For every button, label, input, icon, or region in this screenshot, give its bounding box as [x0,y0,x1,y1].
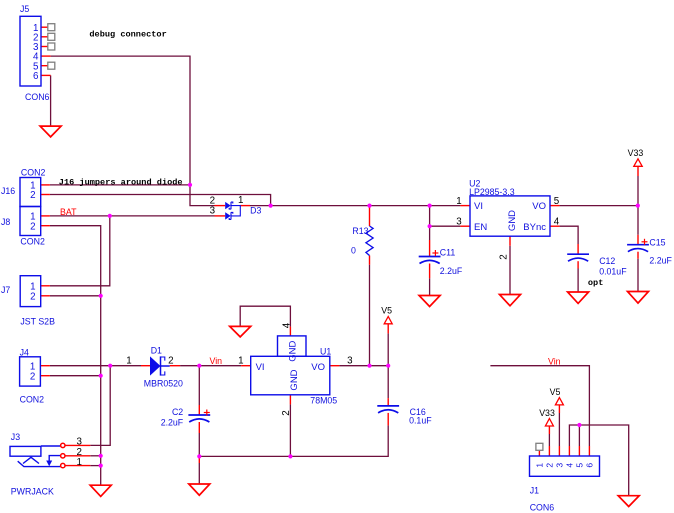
svg-text:J3: J3 [11,432,20,442]
svg-text:4: 4 [281,322,292,328]
svg-text:J5: J5 [20,4,29,14]
svg-text:V5: V5 [550,387,561,397]
svg-text:Vin: Vin [210,356,223,366]
svg-text:2.2uF: 2.2uF [649,256,672,266]
svg-text:C12: C12 [599,256,615,266]
svg-text:CON6: CON6 [530,502,555,512]
svg-text:CON6: CON6 [25,92,50,102]
svg-text:debug connector: debug connector [89,30,166,40]
svg-text:2.2uF: 2.2uF [440,266,463,276]
svg-text:BAT: BAT [60,207,77,217]
svg-text:R13: R13 [352,226,368,236]
svg-text:C15: C15 [649,237,665,247]
svg-text:3: 3 [210,206,216,217]
svg-text:VI: VI [474,201,483,212]
svg-text:CON2: CON2 [21,168,46,178]
svg-text:6: 6 [33,71,39,82]
svg-text:J1: J1 [530,486,539,496]
svg-text:2: 2 [30,291,35,302]
svg-text:2: 2 [545,463,555,468]
svg-text:J4: J4 [20,348,29,358]
svg-text:BYnc: BYnc [523,222,546,233]
svg-text:2: 2 [30,221,35,232]
svg-text:2: 2 [281,410,292,415]
svg-text:3: 3 [76,437,82,448]
svg-text:C11: C11 [440,248,456,258]
svg-text:2.2uF: 2.2uF [161,418,184,428]
svg-text:1: 1 [456,196,461,207]
svg-text:V33: V33 [628,148,644,158]
svg-text:5: 5 [554,196,560,207]
svg-text:EN: EN [474,222,487,233]
svg-text:GND: GND [507,210,518,231]
svg-text:VO: VO [311,362,325,373]
svg-text:0.01uF: 0.01uF [599,267,627,277]
svg-text:78M05: 78M05 [310,396,337,406]
svg-text:6: 6 [585,463,595,468]
svg-text:3: 3 [555,463,565,468]
svg-text:1: 1 [126,356,131,367]
svg-text:2: 2 [30,190,35,201]
svg-text:GND: GND [288,341,299,362]
svg-text:JST S2B: JST S2B [20,317,55,327]
svg-text:0.1uF: 0.1uF [409,415,432,425]
svg-text:1: 1 [238,195,243,206]
svg-text:C2: C2 [172,407,183,417]
svg-text:1: 1 [238,356,243,367]
svg-text:Vin: Vin [548,356,561,366]
svg-text:MBR0520: MBR0520 [144,379,183,389]
svg-text:LP2985-3.3: LP2985-3.3 [469,187,515,197]
svg-text:D3: D3 [250,206,261,216]
svg-text:VO: VO [532,201,546,212]
svg-text:3: 3 [347,356,353,367]
svg-text:D1: D1 [151,346,162,356]
svg-text:1: 1 [76,457,81,468]
svg-text:J7: J7 [1,285,10,295]
svg-text:4: 4 [554,217,560,228]
svg-text:4: 4 [565,463,575,468]
svg-text:CON2: CON2 [20,237,45,247]
svg-text:5: 5 [575,463,585,468]
svg-text:VI: VI [256,362,265,373]
svg-text:V5: V5 [381,305,392,315]
svg-text:J16 jumpers around diode: J16 jumpers around diode [59,177,183,187]
svg-text:2: 2 [168,356,173,367]
svg-text:0: 0 [351,246,356,256]
svg-text:J8: J8 [1,217,10,227]
svg-text:opt: opt [588,278,603,288]
svg-text:2: 2 [499,254,510,259]
svg-text:1: 1 [535,463,545,468]
svg-text:2: 2 [30,371,35,382]
svg-text:V33: V33 [539,408,555,418]
svg-text:J16: J16 [1,186,15,196]
svg-text:U1: U1 [320,347,331,357]
svg-text:CON2: CON2 [20,395,45,405]
svg-text:GND: GND [289,369,300,390]
svg-text:PWRJACK: PWRJACK [11,487,54,497]
svg-text:3: 3 [456,217,462,228]
